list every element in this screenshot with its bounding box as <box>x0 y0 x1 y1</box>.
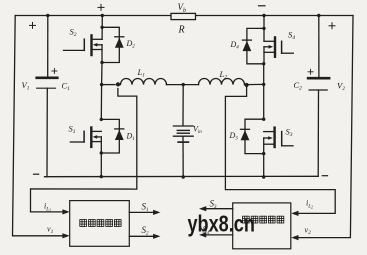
wire: S1 source to bottom rail <box>100 153 102 177</box>
svg-text:v1: v1 <box>47 225 54 236</box>
wire: node A to L1 <box>102 84 115 86</box>
svg-text:ybx8.cn: ybx8.cn <box>188 211 255 237</box>
arrow: S4 output <box>199 232 206 237</box>
wire: D2 loop <box>102 27 119 62</box>
arrow: S3 output <box>199 206 206 211</box>
node: D3 loop top junction <box>262 118 265 121</box>
arrow: v2 into right controller <box>291 235 298 240</box>
svg-text:v2: v2 <box>305 226 312 237</box>
diode D3 <box>241 129 250 140</box>
node: S3 source junction <box>262 152 265 155</box>
coupling dot (L1 polarity circle) <box>116 82 120 86</box>
wire: L1 to center node <box>167 84 184 86</box>
wire: D3 loop <box>245 119 264 153</box>
node: S3 on bottom rail <box>262 175 265 178</box>
right controller box (sliding-mode controller) <box>233 203 291 249</box>
polarity - (bottom rail left end) <box>34 173 39 175</box>
wire: Vin bottom lead <box>182 137 184 178</box>
node: S4 drain on top rail <box>262 14 265 17</box>
wire: S4 source to node B <box>263 64 265 85</box>
arrow: v1 into left controller <box>62 233 69 238</box>
svg-text:Vb: Vb <box>178 2 187 14</box>
svg-text:iL1: iL1 <box>44 202 51 213</box>
wire: left outer rail (v1 sense, slightly slanted) <box>13 16 65 236</box>
wire: C2 top lead <box>318 16 320 77</box>
transistor S3 (MOSFET, mirrored) <box>264 128 293 154</box>
wire: S4 gate drive output <box>205 234 233 236</box>
node: C1 top junction <box>46 14 49 17</box>
node: S4 source junction <box>262 62 265 65</box>
wire: iL1 sense path <box>31 89 137 212</box>
wire: S3 source to bottom rail <box>263 154 265 177</box>
wire: C1 bottom lead <box>46 88 48 177</box>
node: C2 top junction <box>317 14 320 17</box>
node B: L2 / S3-S4 midpoint <box>262 83 265 86</box>
left controller CJK text <box>80 220 121 227</box>
resistor R <box>171 13 196 19</box>
coupling dot (L2 polarity dot) <box>245 83 249 87</box>
capacitor C2 <box>308 78 329 90</box>
polarity - (bottom rail right end) <box>322 175 327 177</box>
svg-text:D2: D2 <box>126 39 136 50</box>
svg-text:D3: D3 <box>229 131 239 142</box>
polarity - (above rail, right of R) <box>259 5 266 7</box>
wire: S2 gate drive output <box>129 235 154 237</box>
wire: right outer rail (v2 sense) <box>297 16 353 238</box>
inductor L2 <box>199 78 245 84</box>
wire: D1 loop <box>101 119 119 153</box>
svg-text:S4: S4 <box>288 30 295 42</box>
wire: L2 to node B <box>245 83 264 85</box>
svg-text:L1: L1 <box>137 67 146 79</box>
svg-text:S1: S1 <box>142 202 149 214</box>
arrow: iL1 into left controller <box>62 209 69 214</box>
wire: top bus rail <box>15 15 353 17</box>
svg-text:R: R <box>178 25 185 36</box>
node: D4 loop top junction <box>262 27 265 30</box>
node: D1 loop top junction <box>100 118 103 121</box>
polarity + (above rail, left of R) <box>98 4 104 10</box>
svg-text:iL2: iL2 <box>306 199 313 210</box>
arrow: S1 output <box>153 210 160 215</box>
diode D4 <box>242 40 251 51</box>
diode D2 <box>115 37 124 48</box>
node: D2 loop top junction <box>100 26 103 29</box>
diode D1 <box>115 129 124 140</box>
left controller box (sliding-mode controller) <box>70 201 130 247</box>
node: center tap (Vin top) <box>182 83 185 86</box>
wire: center node to L2 <box>183 84 198 86</box>
wire: S2 drain lead <box>101 16 103 40</box>
polarity + (top left, V1 plus) <box>30 22 36 28</box>
svg-text:S2: S2 <box>70 27 77 39</box>
wire: S3 gate drive output <box>205 208 233 210</box>
node: Vin on bottom rail <box>182 175 185 178</box>
svg-text:C2: C2 <box>294 80 303 92</box>
wire: C1 top lead <box>47 16 49 77</box>
svg-text:L2: L2 <box>219 69 228 81</box>
wire: S1 gate drive output <box>129 211 154 213</box>
battery Vin <box>173 126 193 142</box>
wire: node A to S1 drain <box>100 85 102 120</box>
svg-text:S3: S3 <box>286 127 293 139</box>
node: S2 source junction <box>100 61 103 64</box>
wire: Vin top lead <box>182 85 184 125</box>
polarity + (C1) <box>52 69 57 74</box>
node A: L1 / S1-S2 midpoint <box>100 83 103 86</box>
wire: iL2 sense path <box>225 87 335 213</box>
polarity + (top right, V2 plus) <box>329 23 335 29</box>
svg-text:S3: S3 <box>210 199 218 211</box>
arrow: iL2 into right controller <box>291 211 298 216</box>
svg-text:D1: D1 <box>126 132 135 143</box>
svg-text:C1: C1 <box>62 81 71 93</box>
polarity + (C2) <box>308 69 313 74</box>
wire: S2 source to node A <box>101 63 103 85</box>
wire: bridge bottom rail <box>45 175 319 177</box>
transistor S1 (MOSFET) <box>70 128 101 154</box>
arrow: S2 output <box>153 234 160 239</box>
right controller CJK text <box>243 216 284 223</box>
capacitor C1 <box>37 78 58 88</box>
node: S1 on bottom rail <box>100 175 103 178</box>
svg-text:V2: V2 <box>337 81 345 93</box>
inductor L1 <box>121 78 167 84</box>
svg-text:Vin: Vin <box>193 125 202 136</box>
wire: node B to S3 drain <box>263 84 265 119</box>
node: S1 source junction <box>100 151 103 154</box>
node: S2 drain on top rail <box>101 14 104 17</box>
wire: D4 loop <box>247 28 264 63</box>
svg-text:V1: V1 <box>22 80 30 92</box>
transistor S2 (MOSFET) <box>64 35 103 62</box>
wire: S4 drain lead <box>263 16 265 42</box>
transistor S4 (MOSFET, mirrored) <box>264 37 293 63</box>
wire: C2 bottom lead <box>317 90 319 176</box>
svg-text:D4: D4 <box>230 40 240 51</box>
svg-text:S1: S1 <box>69 124 76 136</box>
svg-text:S2: S2 <box>142 225 150 237</box>
